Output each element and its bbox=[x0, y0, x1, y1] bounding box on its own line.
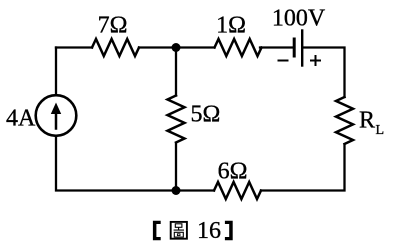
node junction bottom bbox=[172, 186, 181, 195]
wire top-left segment bbox=[56, 46, 92, 48]
battery V1 long plate (positive) bbox=[301, 31, 303, 66]
wire middle vertical top bbox=[175, 48, 177, 96]
wire left-top segment bbox=[55, 48, 57, 96]
svg-text:7Ω: 7Ω bbox=[98, 13, 128, 39]
svg-text:100V: 100V bbox=[272, 5, 326, 31]
svg-text:L: L bbox=[376, 123, 385, 138]
wire top-middle segment bbox=[139, 46, 215, 48]
svg-text:16: 16 bbox=[197, 218, 221, 244]
wire battery-left segment bbox=[260, 46, 293, 48]
svg-text:5Ω: 5Ω bbox=[191, 102, 221, 128]
battery plus sign bbox=[311, 56, 320, 65]
svg-text:6Ω: 6Ω bbox=[218, 159, 248, 185]
resistor 1ohm zigzag bbox=[215, 39, 262, 56]
node junction top bbox=[172, 43, 181, 52]
current source I1 circle bbox=[36, 95, 77, 136]
svg-text:4A: 4A bbox=[6, 106, 36, 132]
wire right-bottom segment bbox=[261, 145, 345, 191]
resistor R 7ohm zigzag bbox=[92, 39, 139, 56]
resistor RL zigzag vertical bbox=[336, 97, 353, 144]
battery minus sign bbox=[279, 60, 288, 62]
battery V1 short plate (negative) bbox=[293, 39, 296, 56]
caption CJK character tu (figure) bbox=[171, 222, 187, 239]
caption bracket right bbox=[225, 221, 233, 240]
resistor 5ohm zigzag vertical bbox=[168, 96, 185, 143]
current source arrow head bbox=[51, 103, 61, 115]
wire middle vertical bottom bbox=[175, 143, 177, 191]
resistor 6ohm zigzag bbox=[214, 182, 261, 199]
current source arrow shaft bbox=[55, 108, 58, 129]
svg-text:R: R bbox=[359, 108, 375, 134]
svg-text:1Ω: 1Ω bbox=[216, 13, 246, 39]
wire bottom-left segment bbox=[56, 136, 214, 191]
wire battery-right to top-right corner and down bbox=[304, 48, 345, 98]
caption bracket left bbox=[153, 221, 161, 240]
